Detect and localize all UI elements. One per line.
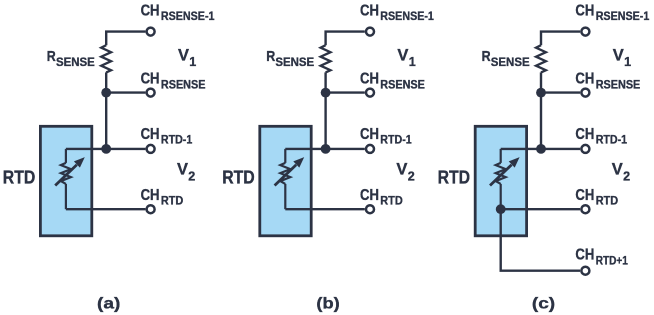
svg-text:R: R: [47, 48, 56, 65]
svg-text:RTD-1: RTD-1: [596, 133, 628, 147]
svg-text:CH: CH: [141, 126, 160, 143]
svg-text:RSENSE: RSENSE: [380, 77, 425, 91]
svg-text:1: 1: [409, 54, 416, 69]
svg-text:R: R: [482, 48, 491, 65]
svg-text:RTD: RTD: [596, 194, 619, 208]
svg-text:RTD-1: RTD-1: [380, 133, 412, 147]
svg-text:V: V: [178, 46, 190, 65]
svg-text:CH: CH: [360, 3, 379, 20]
svg-text:CH: CH: [141, 187, 160, 204]
svg-text:RSENSE: RSENSE: [161, 77, 206, 91]
svg-text:RTD: RTD: [161, 194, 184, 208]
svg-text:(a): (a): [97, 296, 120, 313]
svg-text:CH: CH: [141, 71, 160, 88]
svg-text:CH: CH: [575, 3, 594, 20]
svg-text:CH: CH: [141, 3, 160, 20]
svg-text:CH: CH: [360, 187, 379, 204]
svg-text:CH: CH: [575, 126, 594, 143]
svg-text:1: 1: [189, 54, 196, 69]
svg-text:V: V: [177, 160, 189, 179]
svg-text:(c): (c): [532, 296, 555, 313]
svg-text:CH: CH: [575, 187, 594, 204]
svg-text:RTD: RTD: [3, 168, 36, 188]
svg-text:RTD: RTD: [222, 168, 255, 188]
svg-text:RTD-1: RTD-1: [161, 133, 193, 147]
svg-text:2: 2: [623, 168, 630, 183]
svg-text:1: 1: [624, 54, 631, 69]
svg-text:2: 2: [188, 168, 195, 183]
svg-text:RTD: RTD: [380, 194, 403, 208]
svg-text:CH: CH: [360, 126, 379, 143]
svg-text:RSENSE: RSENSE: [596, 77, 641, 91]
svg-text:RSENSE-1: RSENSE-1: [596, 9, 650, 23]
svg-text:(b): (b): [316, 296, 339, 313]
svg-text:SENSE: SENSE: [56, 55, 95, 69]
svg-text:CH: CH: [360, 71, 379, 88]
svg-text:SENSE: SENSE: [275, 55, 314, 69]
svg-text:V: V: [613, 46, 625, 65]
svg-text:RSENSE-1: RSENSE-1: [380, 9, 434, 23]
svg-text:RSENSE-1: RSENSE-1: [161, 9, 215, 23]
svg-text:V: V: [396, 160, 408, 179]
svg-text:V: V: [397, 46, 409, 65]
svg-text:SENSE: SENSE: [491, 55, 530, 69]
svg-text:V: V: [612, 160, 624, 179]
svg-text:RTD: RTD: [438, 168, 471, 188]
svg-text:RTD+1: RTD+1: [596, 253, 628, 267]
svg-text:CH: CH: [575, 71, 594, 88]
svg-text:CH: CH: [575, 246, 594, 263]
svg-text:2: 2: [408, 168, 415, 183]
svg-text:R: R: [266, 48, 275, 65]
